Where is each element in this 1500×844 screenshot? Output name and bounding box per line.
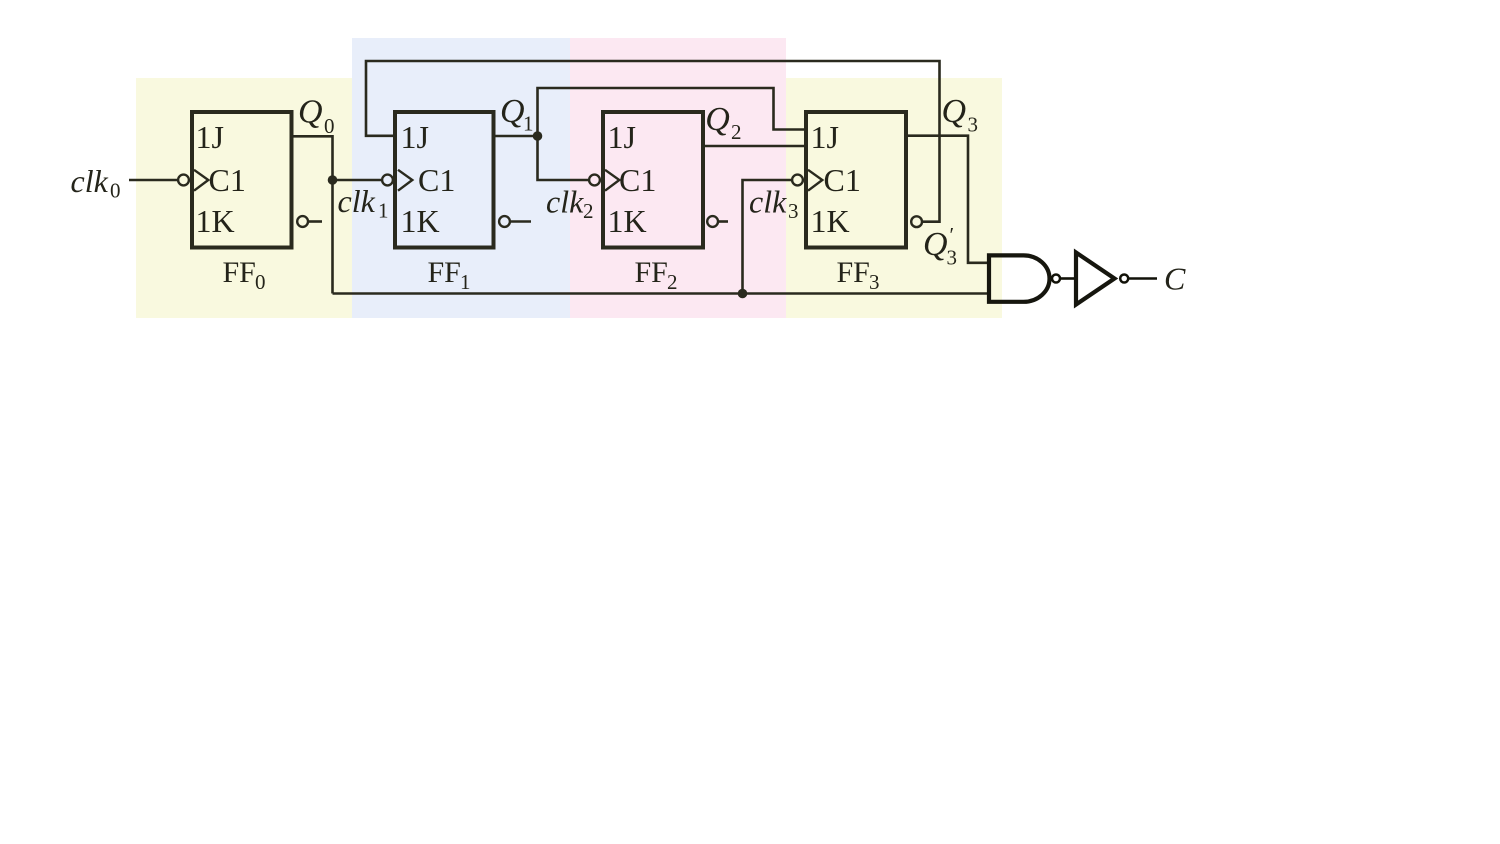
FF0 K output bubble (297, 216, 308, 227)
svg-text:3: 3 (947, 246, 958, 270)
NAND gate U1 (989, 255, 1050, 301)
svg-text:C1: C1 (619, 162, 656, 198)
svg-text:1: 1 (460, 270, 471, 294)
svg-text:1: 1 (523, 112, 534, 136)
FF0 clock bubble (178, 175, 189, 186)
svg-text:3: 3 (968, 113, 979, 137)
FF2 K output bubble (707, 216, 718, 227)
svg-text:0: 0 (110, 179, 121, 203)
wire Q1 node down to clk2 clock bubble (538, 136, 589, 180)
FF1 clock bubble (382, 175, 393, 186)
FF3 K output bubble (Q3') (911, 216, 922, 227)
wire inverter output to C (1129, 277, 1157, 280)
inverter output bubble (1120, 275, 1128, 283)
svg-text:Q: Q (923, 226, 948, 263)
wire node to clk1 clock bubble (333, 179, 382, 182)
svg-text:C1: C1 (209, 162, 246, 198)
wire Q1 output to node (495, 135, 538, 138)
svg-text:FF: FF (635, 256, 668, 289)
wire bottom bus Q0 to NAND input (333, 292, 989, 295)
svg-text:FF: FF (428, 256, 461, 289)
flip-flop FF0 box (192, 112, 292, 248)
wire FF0 K stub (309, 220, 323, 223)
svg-text:0: 0 (255, 270, 266, 294)
svg-text:1K: 1K (196, 203, 235, 239)
svg-text:1J: 1J (608, 119, 636, 155)
svg-text:1K: 1K (811, 203, 850, 239)
svg-text:clk: clk (749, 184, 787, 220)
wire Q3' feedback up and over to FF1 1J (366, 61, 940, 222)
svg-text:2: 2 (667, 270, 678, 294)
wire Q0 output to node (293, 136, 333, 293)
svg-text:1J: 1J (196, 119, 224, 155)
svg-text:Q: Q (298, 94, 323, 131)
wire FF2 K stub (719, 220, 728, 223)
highlight band yellow FF0 (136, 78, 352, 318)
svg-text:1J: 1J (401, 119, 429, 155)
svg-text:FF: FF (223, 256, 256, 289)
FF1 K output bubble (499, 216, 510, 227)
svg-text:2: 2 (583, 199, 594, 223)
svg-text:1K: 1K (401, 203, 440, 239)
svg-text:1K: 1K (608, 203, 647, 239)
FF0 clock edge triangle (194, 170, 208, 191)
FF2 clock edge triangle (605, 170, 619, 191)
svg-text:clk: clk (546, 184, 584, 220)
svg-text:C: C (1164, 261, 1186, 297)
svg-text:C1: C1 (418, 162, 455, 198)
junction node Q0-clk1 (328, 175, 338, 185)
svg-text:Q: Q (500, 93, 525, 130)
highlight band blue FF1 (352, 38, 570, 318)
junction node bus-clk3 (738, 289, 748, 299)
svg-text:FF: FF (837, 256, 870, 289)
svg-text:1J: 1J (811, 119, 839, 155)
FF3 clock bubble (792, 175, 803, 186)
highlight band pink FF2 (570, 38, 786, 318)
wire Q3 output down to NAND top input (906, 136, 988, 263)
svg-text:0: 0 (324, 114, 335, 138)
inverter U2 (1076, 253, 1115, 305)
svg-text:′: ′ (950, 223, 955, 247)
svg-text:3: 3 (869, 270, 880, 294)
wire FF1 K stub (511, 220, 531, 223)
junction node Q1-clk2 (533, 131, 543, 141)
NAND output bubble (1052, 275, 1060, 283)
flip-flop FF2 box (603, 112, 703, 248)
wire Q1 feedback up and over to FF3 1J (538, 88, 807, 136)
svg-text:clk: clk (71, 163, 109, 199)
FF1 clock edge triangle (398, 170, 412, 191)
wire clk0 input lead (129, 179, 177, 182)
svg-text:Q: Q (705, 101, 730, 138)
wire NAND to inverter (1061, 277, 1076, 280)
svg-text:C1: C1 (824, 162, 861, 198)
wire Q2 output to FF3 1J (703, 145, 806, 148)
svg-text:clk: clk (338, 183, 376, 219)
highlight band yellow FF3 (786, 78, 1002, 318)
svg-text:2: 2 (731, 120, 742, 144)
svg-text:1: 1 (378, 199, 389, 223)
FF2 clock bubble (589, 175, 600, 186)
flip-flop FF3 box (806, 112, 906, 248)
svg-text:3: 3 (788, 199, 799, 223)
FF3 clock edge triangle (808, 170, 822, 191)
wire clk3 riser from bus (743, 180, 792, 294)
svg-text:Q: Q (942, 93, 967, 130)
flip-flop FF1 box (395, 112, 494, 248)
